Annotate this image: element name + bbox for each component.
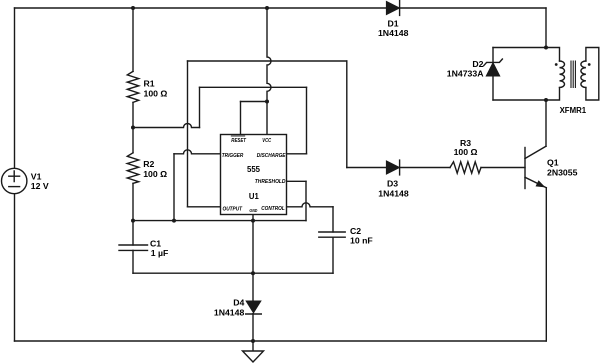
wire R1 top lead <box>132 8 134 71</box>
svg-text:555: 555 <box>247 164 260 174</box>
svg-text:12 V: 12 V <box>31 181 49 191</box>
node junction gnd riser <box>251 219 255 223</box>
U1 pin label TRIGGER <box>222 153 244 159</box>
svg-text:TRIGGER: TRIGGER <box>222 153 244 159</box>
label D3 <box>378 178 409 198</box>
svg-text:VCC: VCC <box>262 138 272 144</box>
transformer secondary phase dot <box>588 63 591 66</box>
U1 pin label RESET with overline <box>231 136 246 144</box>
svg-text:1 µF: 1 µF <box>151 248 169 258</box>
svg-text:100 Ω: 100 Ω <box>454 147 478 157</box>
label C2 <box>350 226 373 246</box>
label D4 <box>214 297 245 317</box>
wire secondary top <box>586 48 599 101</box>
op-amp box U1 555 timer body <box>221 135 287 215</box>
svg-text:DISCHARGE: DISCHARGE <box>257 153 286 159</box>
label R2 <box>143 159 167 179</box>
wire left rail upper <box>14 8 16 168</box>
label D2 <box>447 59 484 79</box>
svg-text:D4: D4 <box>233 297 244 307</box>
label Q1 <box>547 157 578 177</box>
wire R3 to Q1 base <box>481 167 525 169</box>
wire C1 bottom lead <box>132 250 134 273</box>
wire Q1 emitter lead <box>545 188 547 341</box>
node junction D2 top <box>544 46 548 50</box>
U1 designator <box>249 191 259 201</box>
label D1 <box>378 19 409 39</box>
svg-text:Q1: Q1 <box>547 157 559 167</box>
wire top right drop <box>545 8 547 48</box>
transformer primary phase dot <box>555 63 558 66</box>
svg-text:THRESHOLD: THRESHOLD <box>255 179 286 185</box>
node junction D2 bottom <box>544 98 548 102</box>
wire control pin with hop <box>287 203 334 207</box>
capacitor C2 <box>319 232 345 237</box>
wire discharge net upper horizontal <box>200 86 307 88</box>
svg-text:D2: D2 <box>472 59 483 69</box>
wire trig-thresh net <box>133 220 306 222</box>
wire threshold riser <box>305 181 307 220</box>
node junction top R1 <box>131 6 135 10</box>
U1 pin label OUTPUT <box>223 206 243 212</box>
wire D3 anode lead <box>347 167 387 169</box>
wire primary feed top <box>546 48 560 62</box>
wire discharge pin stub <box>287 153 307 155</box>
wire control drop to C2 <box>332 207 334 232</box>
svg-text:D1: D1 <box>387 19 398 29</box>
wire output pin stub <box>188 206 221 208</box>
diode D1 <box>387 1 400 16</box>
wire left rail lower <box>14 194 16 342</box>
wire trigger pin with hop <box>174 150 221 154</box>
wire reset tie <box>241 101 268 103</box>
wire R1 bottom lead <box>132 102 134 127</box>
svg-text:2N3055: 2N3055 <box>547 167 578 177</box>
svg-text:C2: C2 <box>350 226 361 236</box>
label R1 <box>144 79 168 99</box>
wire D2 bottom <box>493 99 546 101</box>
U1 pin label DISCHARGE <box>257 153 286 159</box>
U1 pin label THRESHOLD <box>255 179 286 185</box>
U1 part number 555 <box>247 164 260 174</box>
svg-text:CONTROL: CONTROL <box>261 206 285 212</box>
wire C2 bottom lead <box>332 237 334 273</box>
wire D2 top <box>493 47 546 49</box>
wire threshold pin stub <box>287 180 307 182</box>
resistor R1 <box>127 71 138 102</box>
node junction D4 bottom <box>251 339 255 343</box>
wire output top horizontal <box>188 60 347 62</box>
node junction R1 R2 <box>131 126 135 130</box>
wire output drop to D3 <box>346 61 348 168</box>
label C1 <box>150 239 168 258</box>
wire C1 top lead <box>132 221 134 245</box>
wire D2 anode lead <box>492 76 494 100</box>
transistor Q1 <box>525 146 546 188</box>
U1 pin label VCC <box>262 138 272 144</box>
transformer core <box>571 61 575 88</box>
wire discharge pin drop <box>306 87 308 154</box>
wire D4 cathode lead <box>252 314 254 341</box>
wire R2 top lead <box>132 128 134 153</box>
svg-text:R1: R1 <box>144 79 155 89</box>
wire Q1 collector lead <box>545 100 547 146</box>
wire VCC riser with hops <box>267 8 271 135</box>
svg-text:U1: U1 <box>249 191 259 201</box>
wire R2 bottom lead <box>132 183 134 220</box>
resistor R3 <box>450 162 481 173</box>
node junction top VCC <box>265 6 269 10</box>
U1 pin label CONTROL <box>261 206 285 212</box>
wire discharge net horizontal with hop <box>133 124 200 128</box>
label XFMR1 <box>560 105 587 115</box>
diode D3 <box>387 160 400 175</box>
voltage source V1 <box>2 168 27 193</box>
wire output riser <box>187 61 189 207</box>
label V1 <box>31 172 49 191</box>
wire primary feed bottom <box>546 88 560 100</box>
svg-text:1N4148: 1N4148 <box>378 28 409 38</box>
wire gnd symbol lead <box>252 341 254 351</box>
svg-text:GND: GND <box>249 208 258 213</box>
svg-text:R2: R2 <box>143 159 154 169</box>
svg-text:100 Ω: 100 Ω <box>143 169 167 179</box>
node junction trigger <box>172 219 176 223</box>
svg-text:1N4148: 1N4148 <box>214 307 245 317</box>
wire reset riser <box>240 102 242 135</box>
wire bottom rail <box>15 340 547 342</box>
wire gnd pin riser <box>252 215 254 301</box>
wire D3 to R3 <box>400 167 450 169</box>
node junction R2 bottom <box>131 219 135 223</box>
label R3 <box>454 138 478 157</box>
wire discharge net riser <box>199 87 201 127</box>
transformer XFMR1 primary winding <box>560 61 565 87</box>
ground symbol <box>243 351 264 362</box>
U1 pin label GND <box>249 208 258 213</box>
svg-text:RESET: RESET <box>231 138 246 144</box>
wire trigger riser <box>173 154 175 221</box>
svg-text:OUTPUT: OUTPUT <box>223 206 243 212</box>
transformer XFMR1 secondary winding <box>581 61 586 87</box>
wire D2 cathode lead <box>492 48 494 63</box>
svg-text:XFMR1: XFMR1 <box>560 105 587 115</box>
node junction reset vcc <box>265 100 269 104</box>
capacitor C1 <box>119 245 148 250</box>
svg-text:100 Ω: 100 Ω <box>144 89 168 99</box>
svg-text:10 nF: 10 nF <box>350 236 373 246</box>
node junction gnd mid <box>251 271 255 275</box>
wire ground mid horizontal <box>133 272 333 274</box>
diode D4 <box>246 301 262 314</box>
zener diode D2 <box>484 59 503 76</box>
wire top rail <box>15 7 547 9</box>
svg-text:D3: D3 <box>387 178 398 188</box>
resistor R2 <box>127 153 138 184</box>
svg-text:1N4733A: 1N4733A <box>447 69 484 79</box>
svg-text:1N4148: 1N4148 <box>378 189 409 199</box>
